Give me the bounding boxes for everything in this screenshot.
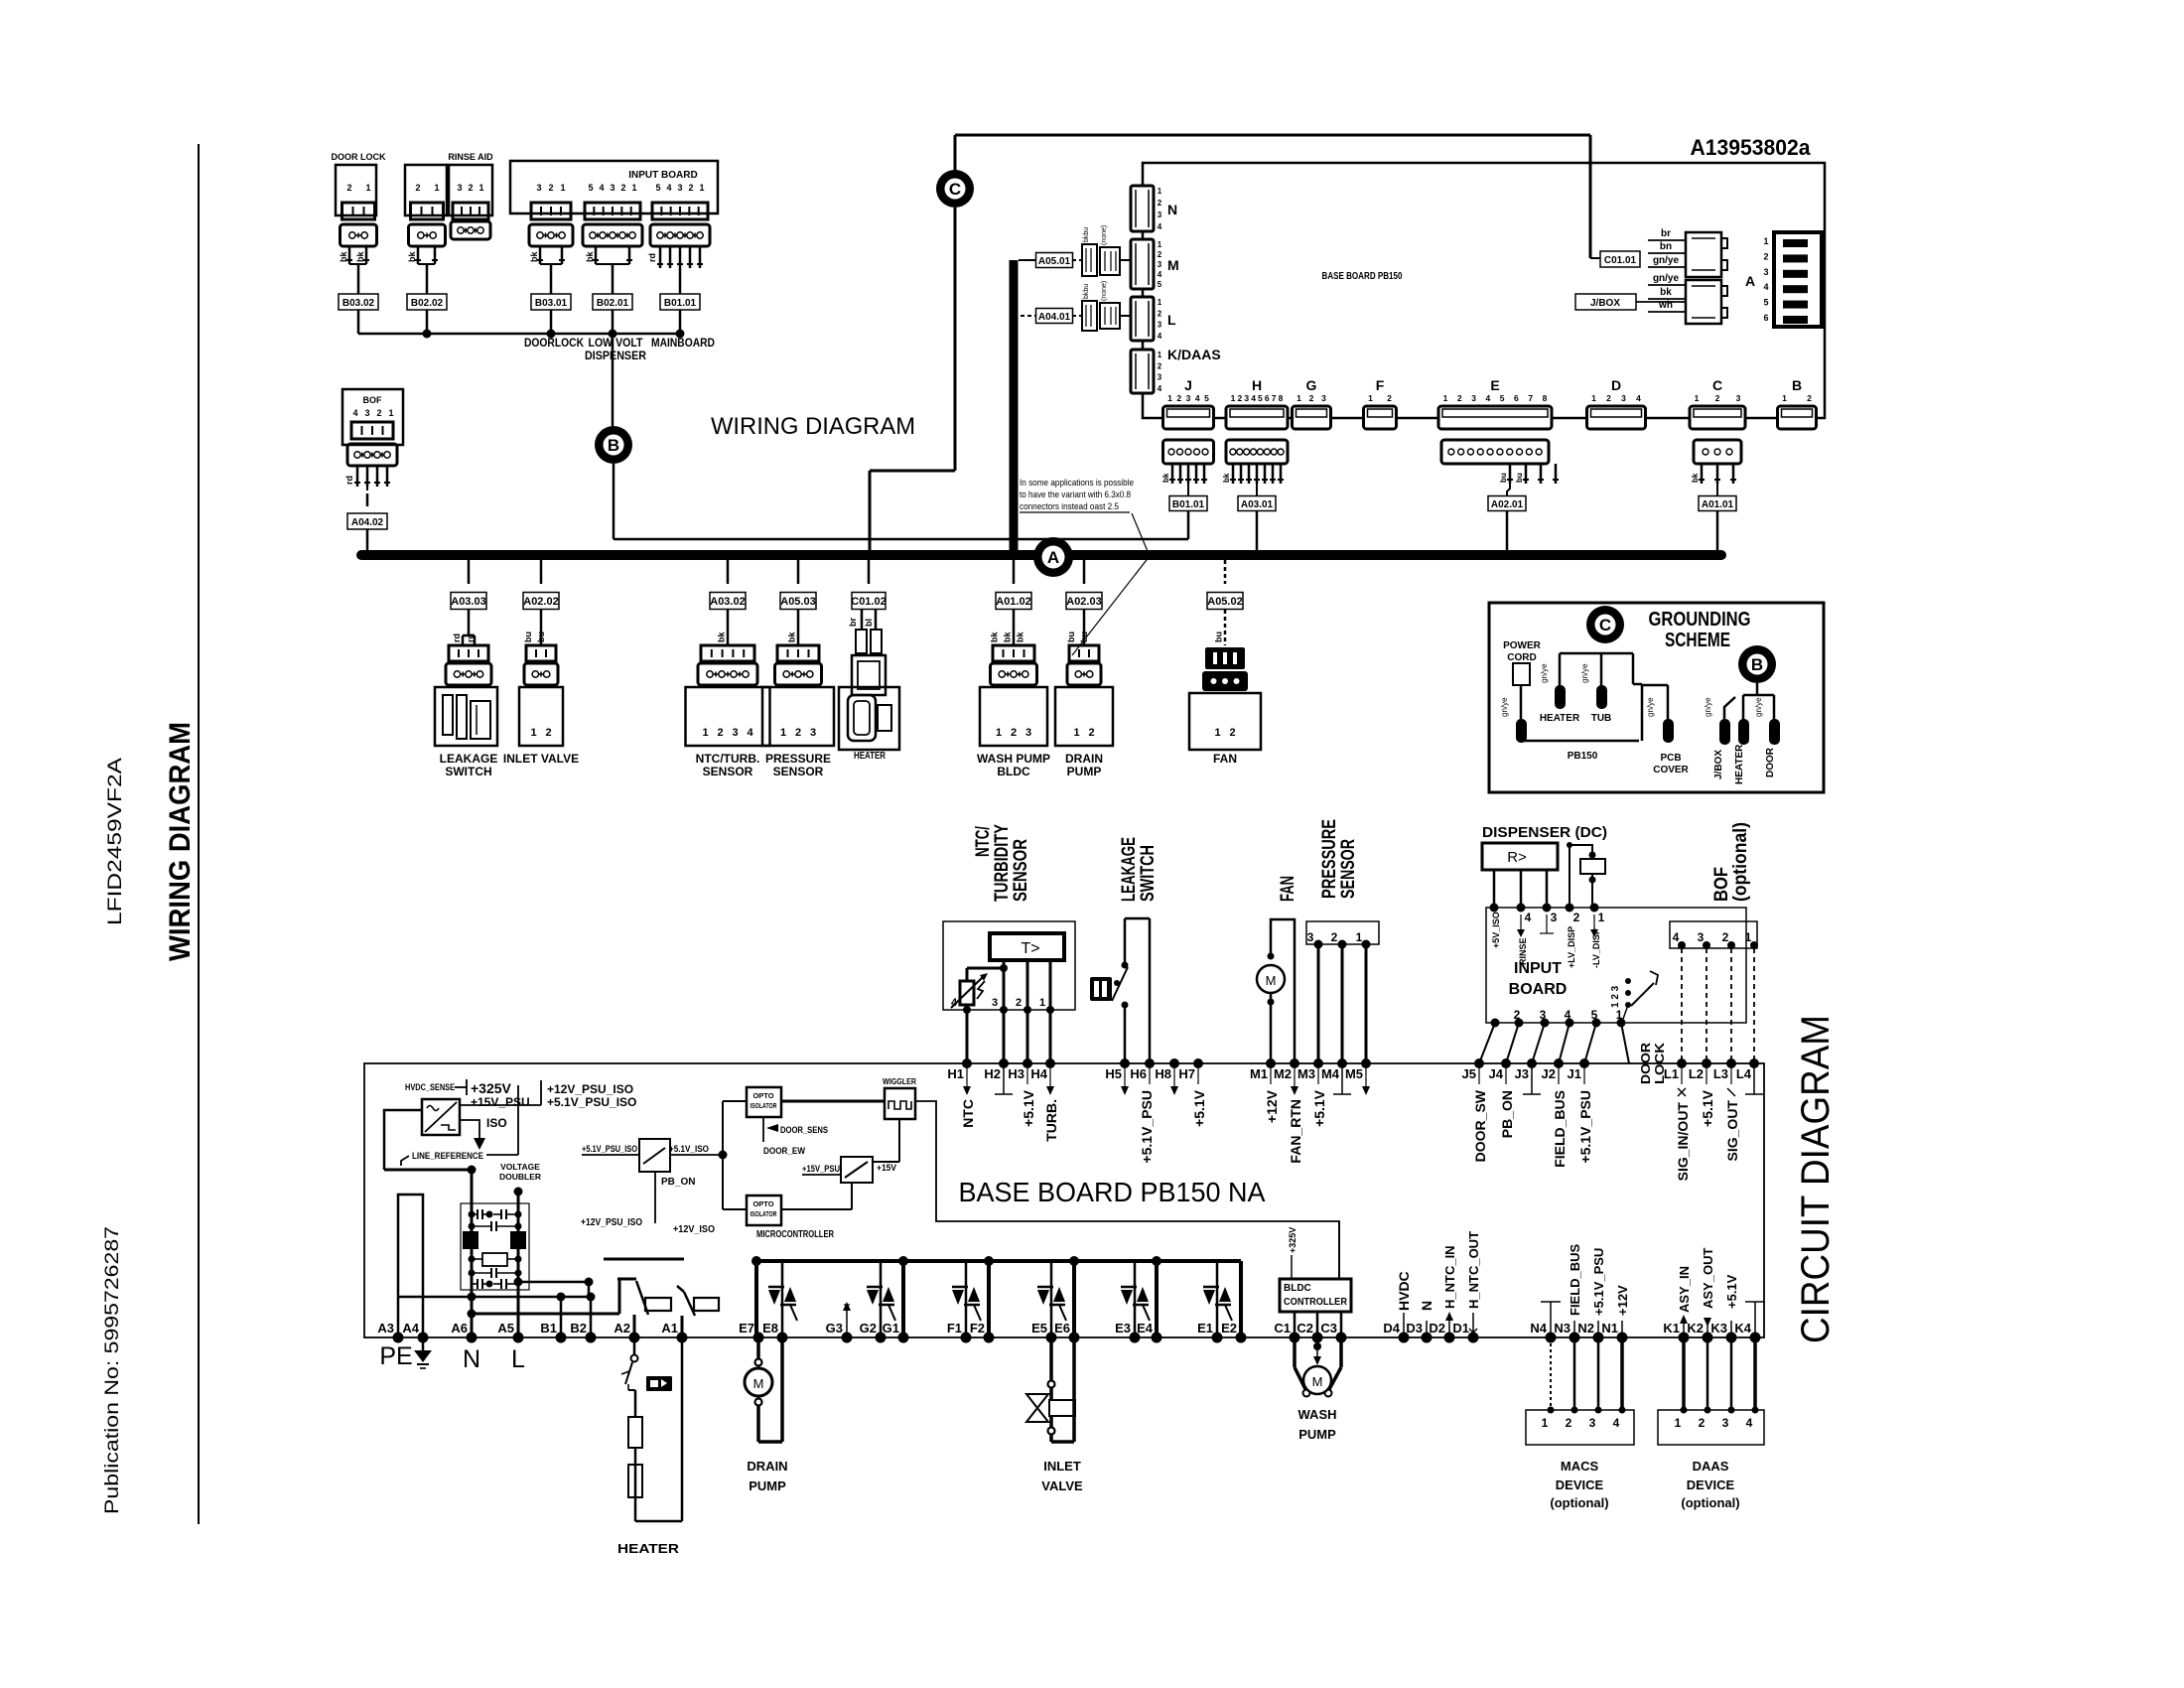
svg-text:H: H bbox=[1252, 377, 1262, 393]
svg-text:3: 3 bbox=[1621, 393, 1626, 403]
svg-text:bk: bk bbox=[529, 251, 539, 262]
svg-text:2: 2 bbox=[415, 183, 420, 193]
label TUB bbox=[1591, 713, 1612, 724]
svg-text:(none): (none) bbox=[1101, 225, 1108, 245]
svg-text:(optional): (optional) bbox=[1730, 822, 1751, 902]
svg-text:bk: bk bbox=[585, 251, 595, 262]
svg-text:C3: C3 bbox=[1320, 1321, 1337, 1336]
svg-text:TUB: TUB bbox=[1591, 713, 1612, 724]
node B wire bbox=[612, 334, 614, 426]
board BASE BOARD PB150 outline bbox=[1143, 163, 1825, 418]
svg-text:1: 1 bbox=[1591, 393, 1596, 403]
svg-text:+5.1V: +5.1V bbox=[1724, 1274, 1739, 1309]
svg-text:SENSOR: SENSOR bbox=[1338, 839, 1359, 899]
svg-text:B: B bbox=[1792, 377, 1802, 393]
svg-text:+5.1V: +5.1V bbox=[1021, 1089, 1036, 1127]
svg-text:1: 1 bbox=[1297, 393, 1301, 403]
svg-text:3: 3 bbox=[1244, 393, 1249, 403]
svg-text:PRESSURE: PRESSURE bbox=[1319, 819, 1340, 899]
triac rail bbox=[751, 1256, 1241, 1337]
wire N feed bbox=[384, 1166, 477, 1338]
svg-text:1: 1 bbox=[780, 727, 786, 739]
svg-text:K1: K1 bbox=[1663, 1321, 1680, 1336]
svg-text:DISPENSER: DISPENSER bbox=[585, 349, 646, 362]
svg-text:3: 3 bbox=[1321, 393, 1326, 403]
label J/BOX grounding bbox=[1713, 750, 1724, 779]
pin J1 bbox=[1568, 1058, 1593, 1164]
svg-text:HEATER: HEATER bbox=[1540, 713, 1580, 724]
label J/BOX bbox=[1575, 294, 1686, 310]
svg-text:K2: K2 bbox=[1687, 1321, 1704, 1336]
svg-text:ASY_IN: ASY_IN bbox=[1677, 1266, 1692, 1313]
svg-text:1: 1 bbox=[1675, 1416, 1682, 1430]
switch PB_ON bbox=[582, 1139, 723, 1223]
grounding B wires bbox=[1724, 683, 1774, 721]
dispenser jumper bbox=[1567, 842, 1605, 908]
pin M3 bbox=[1297, 1058, 1327, 1127]
svg-text:bu: bu bbox=[1066, 632, 1076, 642]
component DRAIN PUMP circuit bbox=[745, 1337, 788, 1493]
svg-text:VOLTAGE: VOLTAGE bbox=[500, 1162, 540, 1172]
label +12V_ISO bbox=[673, 1224, 715, 1235]
svg-text:L: L bbox=[1167, 312, 1176, 328]
svg-text:bk: bk bbox=[355, 251, 365, 262]
label PB150 bbox=[1568, 751, 1598, 762]
psu converter U1 bbox=[422, 1080, 541, 1135]
svg-text:N: N bbox=[463, 1345, 480, 1373]
svg-text:1: 1 bbox=[1073, 727, 1079, 739]
svg-text:1: 1 bbox=[1745, 930, 1752, 944]
svg-text:1: 1 bbox=[1158, 187, 1162, 196]
svg-text:1: 1 bbox=[1158, 298, 1162, 307]
component HEATER top bbox=[839, 559, 899, 762]
terminal power cord end bbox=[1500, 697, 1527, 743]
svg-text:1 2 3: 1 2 3 bbox=[1610, 985, 1621, 1008]
svg-text:3: 3 bbox=[1471, 393, 1476, 403]
svg-text:gn/ye: gn/ye bbox=[1653, 273, 1680, 284]
label N bbox=[463, 1345, 480, 1373]
svg-text:bk: bk bbox=[407, 251, 417, 262]
net +12V macs bbox=[1615, 1285, 1630, 1337]
svg-text:C1: C1 bbox=[1274, 1321, 1291, 1336]
svg-text:3: 3 bbox=[992, 997, 998, 1009]
svg-text:C01.02: C01.02 bbox=[851, 596, 886, 608]
label B03.02 bbox=[339, 294, 378, 334]
svg-text:2: 2 bbox=[1715, 393, 1720, 403]
connector A lower half bbox=[1686, 280, 1727, 324]
svg-text:A4: A4 bbox=[402, 1321, 419, 1336]
svg-text:J4: J4 bbox=[1489, 1066, 1504, 1081]
svg-text:5: 5 bbox=[1158, 280, 1162, 289]
svg-text:4: 4 bbox=[747, 727, 753, 739]
label +12V_PSU_ISO bbox=[547, 1082, 633, 1096]
svg-text:4: 4 bbox=[951, 997, 958, 1009]
svg-text:BLDC: BLDC bbox=[997, 765, 1030, 778]
label VOLTAGE DOUBLER bbox=[499, 1162, 541, 1182]
wiggler bbox=[883, 1077, 916, 1119]
svg-text:BOF: BOF bbox=[1711, 867, 1732, 902]
svg-text:3: 3 bbox=[1763, 267, 1768, 277]
svg-text:1: 1 bbox=[1598, 911, 1605, 924]
svg-text:bu: bu bbox=[1214, 632, 1224, 642]
svg-text:3: 3 bbox=[457, 183, 462, 193]
svg-text:1: 1 bbox=[1616, 1008, 1623, 1022]
pin L3 bbox=[1713, 1058, 1740, 1161]
svg-text:5: 5 bbox=[1258, 393, 1263, 403]
svg-text:C2: C2 bbox=[1297, 1321, 1313, 1336]
svg-text:WIRING DIAGRAM: WIRING DIAGRAM bbox=[164, 722, 197, 961]
svg-text:2: 2 bbox=[1722, 930, 1729, 944]
svg-text:2: 2 bbox=[1158, 250, 1162, 259]
connector RINSE AID bbox=[405, 152, 493, 295]
label LINE_REFERENCE bbox=[401, 1085, 518, 1166]
svg-text:bk: bk bbox=[1016, 632, 1025, 642]
svg-text:bu: bu bbox=[1499, 473, 1508, 483]
svg-text:connectors instead oast 2.5: connectors instead oast 2.5 bbox=[1020, 501, 1119, 512]
svg-text:A13953802a: A13953802a bbox=[1691, 135, 1812, 160]
svg-text:L4: L4 bbox=[1736, 1066, 1752, 1081]
connector N bbox=[1131, 186, 1177, 231]
svg-text:E8: E8 bbox=[762, 1321, 778, 1336]
svg-text:br: br bbox=[848, 618, 858, 627]
svg-text:K3: K3 bbox=[1710, 1321, 1727, 1336]
label BASE BOARD PB150 bbox=[1322, 271, 1403, 282]
svg-text:J2: J2 bbox=[1542, 1066, 1556, 1081]
svg-text:LOCK: LOCK bbox=[1652, 1042, 1667, 1084]
svg-text:2: 2 bbox=[1158, 199, 1162, 208]
svg-text:4: 4 bbox=[1525, 911, 1532, 924]
connector E bbox=[1438, 377, 1559, 495]
svg-text:B02.02: B02.02 bbox=[411, 298, 444, 309]
svg-text:F: F bbox=[1376, 377, 1385, 393]
svg-text:2: 2 bbox=[1229, 727, 1235, 739]
svg-text:M5: M5 bbox=[1345, 1066, 1363, 1081]
svg-text:+12V_PSU_ISO: +12V_PSU_ISO bbox=[581, 1217, 642, 1228]
svg-text:4: 4 bbox=[1158, 332, 1162, 341]
label A04.01 bbox=[1014, 309, 1082, 324]
svg-text:1: 1 bbox=[1214, 727, 1220, 739]
component FAN top bbox=[1189, 560, 1261, 766]
svg-text:1: 1 bbox=[699, 183, 704, 193]
component WASH PUMP circuit bbox=[1295, 1337, 1341, 1442]
svg-text:3: 3 bbox=[1025, 727, 1031, 739]
svg-text:5: 5 bbox=[1204, 393, 1209, 403]
wire opto2 to switch bbox=[781, 1183, 852, 1209]
svg-text:7: 7 bbox=[1528, 393, 1533, 403]
svg-text:3: 3 bbox=[1186, 393, 1191, 403]
triac G2 bbox=[867, 1261, 895, 1337]
svg-text:4: 4 bbox=[1763, 282, 1768, 292]
svg-text:DOOR LOCK: DOOR LOCK bbox=[332, 152, 386, 162]
svg-text:N1: N1 bbox=[1601, 1321, 1618, 1336]
pin M4 bbox=[1321, 1058, 1351, 1094]
gate arrow G3 bbox=[843, 1302, 851, 1337]
svg-text:B1: B1 bbox=[540, 1321, 557, 1336]
svg-text:3: 3 bbox=[1307, 930, 1314, 944]
ground symbol bbox=[414, 1337, 432, 1368]
svg-text:(optional): (optional) bbox=[1681, 1495, 1739, 1510]
pin M5 bbox=[1345, 1058, 1371, 1095]
svg-text:6: 6 bbox=[1763, 313, 1768, 323]
svg-text:3: 3 bbox=[1158, 211, 1162, 219]
svg-text:gn/ye: gn/ye bbox=[1646, 697, 1655, 717]
svg-text:3: 3 bbox=[1698, 930, 1705, 944]
svg-text:1: 1 bbox=[1356, 930, 1363, 944]
svg-text:4: 4 bbox=[1158, 222, 1162, 231]
svg-text:F1: F1 bbox=[947, 1321, 962, 1336]
svg-text:D1: D1 bbox=[1452, 1321, 1469, 1336]
svg-text:2: 2 bbox=[1573, 911, 1580, 924]
svg-text:bk: bk bbox=[990, 632, 1000, 642]
svg-text:E: E bbox=[1490, 377, 1499, 393]
svg-text:+12V_ISO: +12V_ISO bbox=[673, 1224, 715, 1235]
pin L1 bbox=[1664, 1058, 1691, 1181]
svg-text:N: N bbox=[1419, 1301, 1434, 1311]
svg-text:E4: E4 bbox=[1137, 1321, 1154, 1336]
sidebar title WIRING DIAGRAM bbox=[164, 722, 197, 961]
svg-text:D: D bbox=[1611, 377, 1621, 393]
svg-text:3: 3 bbox=[1736, 393, 1741, 403]
svg-text:H5: H5 bbox=[1105, 1066, 1122, 1081]
opto isolator 1 bbox=[747, 1087, 781, 1117]
node A circle bbox=[1033, 537, 1073, 577]
svg-text:bu: bu bbox=[1515, 473, 1524, 483]
svg-text:A05.03: A05.03 bbox=[780, 596, 815, 608]
svg-text:br: br bbox=[1661, 228, 1671, 239]
svg-text:M2: M2 bbox=[1274, 1066, 1292, 1081]
label BASE BOARD PB150 NA bbox=[959, 1177, 1266, 1207]
pin M1 bbox=[1250, 1058, 1280, 1123]
svg-text:bu: bu bbox=[523, 632, 533, 642]
svg-text:2: 2 bbox=[1331, 930, 1338, 944]
svg-text:4: 4 bbox=[1195, 393, 1200, 403]
svg-text:NTC/TURB.: NTC/TURB. bbox=[696, 752, 760, 766]
net FIELD_BUS bbox=[1568, 1243, 1582, 1337]
svg-text:ISOLATOR: ISOLATOR bbox=[751, 1101, 777, 1110]
svg-text:1: 1 bbox=[560, 183, 565, 193]
component DRAIN PUMP top bbox=[1055, 555, 1113, 778]
label L bbox=[511, 1345, 525, 1373]
svg-text:3: 3 bbox=[1158, 321, 1162, 330]
svg-text:NTC/: NTC/ bbox=[973, 825, 994, 857]
svg-text:WIGGLER: WIGGLER bbox=[883, 1077, 916, 1086]
svg-text:2: 2 bbox=[1763, 251, 1768, 261]
svg-text:4: 4 bbox=[1158, 384, 1162, 393]
relay contact A1 bbox=[677, 1286, 719, 1337]
pin J2 bbox=[1542, 1058, 1568, 1168]
terminal heater B bbox=[1738, 719, 1749, 745]
svg-text:ISOLATOR: ISOLATOR bbox=[751, 1209, 777, 1218]
svg-text:A03.03: A03.03 bbox=[451, 596, 485, 608]
svg-text:2: 2 bbox=[1566, 1416, 1572, 1430]
svg-text:F2: F2 bbox=[970, 1321, 985, 1336]
svg-text:M: M bbox=[1167, 257, 1179, 273]
svg-text:HVDC_SENSE: HVDC_SENSE bbox=[405, 1082, 455, 1092]
svg-text:B01.01: B01.01 bbox=[664, 298, 697, 309]
svg-text:H8: H8 bbox=[1155, 1066, 1171, 1081]
svg-text:BASE BOARD PB150 NA: BASE BOARD PB150 NA bbox=[959, 1177, 1266, 1207]
svg-text:2: 2 bbox=[1016, 997, 1022, 1009]
svg-text:DEVICE: DEVICE bbox=[1556, 1477, 1604, 1492]
svg-text:to have the variant with 6.3x0: to have the variant with 6.3x0.8 bbox=[1020, 490, 1131, 500]
svg-text:SWITCH: SWITCH bbox=[1138, 845, 1159, 902]
svg-text:A04.02: A04.02 bbox=[351, 517, 384, 528]
svg-text:1: 1 bbox=[1231, 393, 1236, 403]
node C circle grounding bbox=[1586, 606, 1624, 643]
svg-text:N: N bbox=[1167, 202, 1177, 217]
svg-text:H1: H1 bbox=[947, 1066, 964, 1081]
svg-text:rd: rd bbox=[647, 253, 657, 262]
svg-text:+12V_PSU_ISO: +12V_PSU_ISO bbox=[547, 1082, 633, 1096]
connector H bbox=[1222, 377, 1288, 495]
svg-text:1: 1 bbox=[996, 727, 1002, 739]
label A04.02 bbox=[347, 513, 387, 552]
label C01.01 bbox=[1600, 251, 1640, 267]
svg-text:DRAIN: DRAIN bbox=[1065, 752, 1103, 766]
svg-text:E5: E5 bbox=[1031, 1321, 1047, 1336]
svg-text:(optional): (optional) bbox=[1550, 1495, 1608, 1510]
svg-text:LFID2459VF2A: LFID2459VF2A bbox=[105, 758, 126, 925]
svg-text:4: 4 bbox=[599, 183, 604, 193]
svg-text:2: 2 bbox=[1088, 727, 1094, 739]
svg-text:C: C bbox=[949, 180, 961, 199]
svg-text:E6: E6 bbox=[1054, 1321, 1070, 1336]
svg-text:A5: A5 bbox=[497, 1321, 514, 1336]
svg-text:A03.02: A03.02 bbox=[710, 596, 745, 608]
svg-text:DOOR_SENS: DOOR_SENS bbox=[780, 1125, 828, 1136]
svg-text:gn/ye: gn/ye bbox=[1754, 697, 1763, 717]
svg-text:HEATER: HEATER bbox=[617, 1541, 680, 1556]
svg-text:DRAIN: DRAIN bbox=[747, 1459, 787, 1474]
svg-text:8: 8 bbox=[1279, 393, 1284, 403]
svg-text:+12V: +12V bbox=[1264, 1089, 1280, 1123]
svg-text:A03.01: A03.01 bbox=[1241, 499, 1274, 510]
svg-text:SENSOR: SENSOR bbox=[703, 765, 753, 778]
svg-text:2: 2 bbox=[1807, 393, 1812, 403]
label A05.01 bbox=[1019, 253, 1082, 268]
svg-text:5: 5 bbox=[588, 183, 593, 193]
svg-text:+5.1V_PSU: +5.1V_PSU bbox=[1139, 1090, 1155, 1164]
net ASY_OUT bbox=[1701, 1248, 1715, 1337]
net H_NTC_OUT bbox=[1466, 1231, 1481, 1337]
net K4 tbar bbox=[1745, 1302, 1765, 1337]
terminal tub bbox=[1580, 663, 1607, 709]
svg-text:TURB.: TURB. bbox=[1043, 1099, 1059, 1142]
svg-text:1: 1 bbox=[478, 183, 483, 193]
wire neutral rail bbox=[398, 1293, 596, 1338]
svg-text:3: 3 bbox=[732, 727, 738, 739]
wire A3 A4 bridge bbox=[398, 1195, 423, 1337]
grounding scheme title bbox=[1649, 609, 1751, 651]
grounding scheme box bbox=[1489, 603, 1824, 792]
connector L bbox=[1131, 297, 1176, 341]
svg-text:INLET: INLET bbox=[1043, 1459, 1081, 1474]
svg-text:3: 3 bbox=[536, 183, 541, 193]
device DAAS bbox=[1658, 1337, 1764, 1510]
svg-text:3: 3 bbox=[1722, 1416, 1729, 1430]
svg-text:+325V: +325V bbox=[471, 1080, 512, 1096]
connector BOF bbox=[342, 389, 403, 506]
svg-text:ASY_OUT: ASY_OUT bbox=[1701, 1248, 1715, 1309]
wire doorlock junction line bbox=[358, 330, 685, 339]
component WASH PUMP BLDC bbox=[977, 555, 1050, 778]
svg-text:HEATER: HEATER bbox=[1734, 744, 1745, 784]
node B circle grounding bbox=[1738, 645, 1776, 683]
svg-text:4: 4 bbox=[1485, 393, 1490, 403]
svg-text:L2: L2 bbox=[1689, 1066, 1704, 1081]
connector M bbox=[1131, 239, 1179, 289]
label A03.01 bbox=[1238, 496, 1276, 553]
svg-text:FAN: FAN bbox=[1278, 876, 1298, 902]
svg-text:1: 1 bbox=[365, 183, 370, 193]
svg-text:J3: J3 bbox=[1515, 1066, 1529, 1081]
connector D bbox=[1587, 377, 1646, 429]
sidebar text LFID2459VF2A bbox=[105, 758, 126, 925]
triac E3 bbox=[1121, 1261, 1150, 1337]
wire net B to B01.01 bbox=[614, 464, 1188, 539]
svg-text:SCHEME: SCHEME bbox=[1665, 630, 1730, 651]
board inner boundary bbox=[915, 1101, 1339, 1279]
wire 5.1V iso node bbox=[719, 1101, 748, 1209]
label +15V_PSU bbox=[471, 1095, 530, 1109]
svg-text:5: 5 bbox=[1591, 1008, 1598, 1022]
label ISO arrow bbox=[460, 1116, 507, 1150]
door lock switch circuit bbox=[1610, 971, 1667, 1084]
label MICROCONTROLLER bbox=[756, 1229, 835, 1240]
svg-text:bkbu: bkbu bbox=[1083, 284, 1090, 299]
connector J bbox=[1161, 377, 1214, 495]
svg-text:5: 5 bbox=[1500, 393, 1505, 403]
svg-text:D4: D4 bbox=[1383, 1321, 1400, 1336]
svg-text:RINSE AID: RINSE AID bbox=[448, 152, 493, 162]
svg-text:SENSOR: SENSOR bbox=[1011, 839, 1031, 902]
svg-text:4: 4 bbox=[666, 183, 671, 193]
svg-text:K4: K4 bbox=[1734, 1321, 1751, 1336]
svg-text:+5.1V: +5.1V bbox=[1700, 1089, 1715, 1127]
svg-text:4: 4 bbox=[1565, 1008, 1571, 1022]
svg-text:M: M bbox=[753, 1376, 764, 1391]
svg-text:A01.01: A01.01 bbox=[1702, 499, 1734, 510]
svg-text:PRESSURE: PRESSURE bbox=[765, 752, 831, 766]
pin M2 bbox=[1274, 1058, 1303, 1164]
pin J4 bbox=[1489, 1058, 1515, 1138]
opto isolator 2 bbox=[747, 1196, 781, 1225]
svg-text:DOOR_EW: DOOR_EW bbox=[763, 1146, 805, 1157]
connector INPUT BOARD bbox=[510, 161, 718, 295]
svg-text:gn/ye: gn/ye bbox=[1704, 697, 1712, 717]
sidebar separator line bbox=[198, 144, 200, 1524]
component PRESSURE SENSOR circuit bbox=[1306, 819, 1379, 1063]
svg-text:DOOR: DOOR bbox=[1765, 747, 1776, 777]
svg-text:bk: bk bbox=[339, 251, 348, 262]
component NTC/TURBIDITY SENSOR circuit bbox=[943, 824, 1075, 1063]
svg-text:LEAKAGE: LEAKAGE bbox=[1119, 837, 1140, 902]
svg-text:MICROCONTROLLER: MICROCONTROLLER bbox=[756, 1229, 835, 1240]
label DOOR_SENS bbox=[763, 1117, 828, 1157]
svg-text:bk: bk bbox=[1003, 632, 1013, 642]
component NTC/TURB SENSOR bbox=[686, 555, 770, 778]
svg-text:+5.1V_ISO: +5.1V_ISO bbox=[669, 1144, 709, 1155]
svg-text:E2: E2 bbox=[1221, 1321, 1237, 1336]
net N bbox=[1419, 1301, 1434, 1337]
triac E1 bbox=[1203, 1261, 1232, 1337]
svg-text:H2: H2 bbox=[984, 1066, 1001, 1081]
wire line rail bbox=[514, 1278, 594, 1298]
svg-text:DISPENSER (DC): DISPENSER (DC) bbox=[1482, 824, 1607, 841]
svg-text:gn/ye: gn/ye bbox=[1653, 255, 1680, 266]
terminal pcb cover bbox=[1646, 697, 1674, 743]
svg-text:M: M bbox=[1312, 1374, 1323, 1389]
